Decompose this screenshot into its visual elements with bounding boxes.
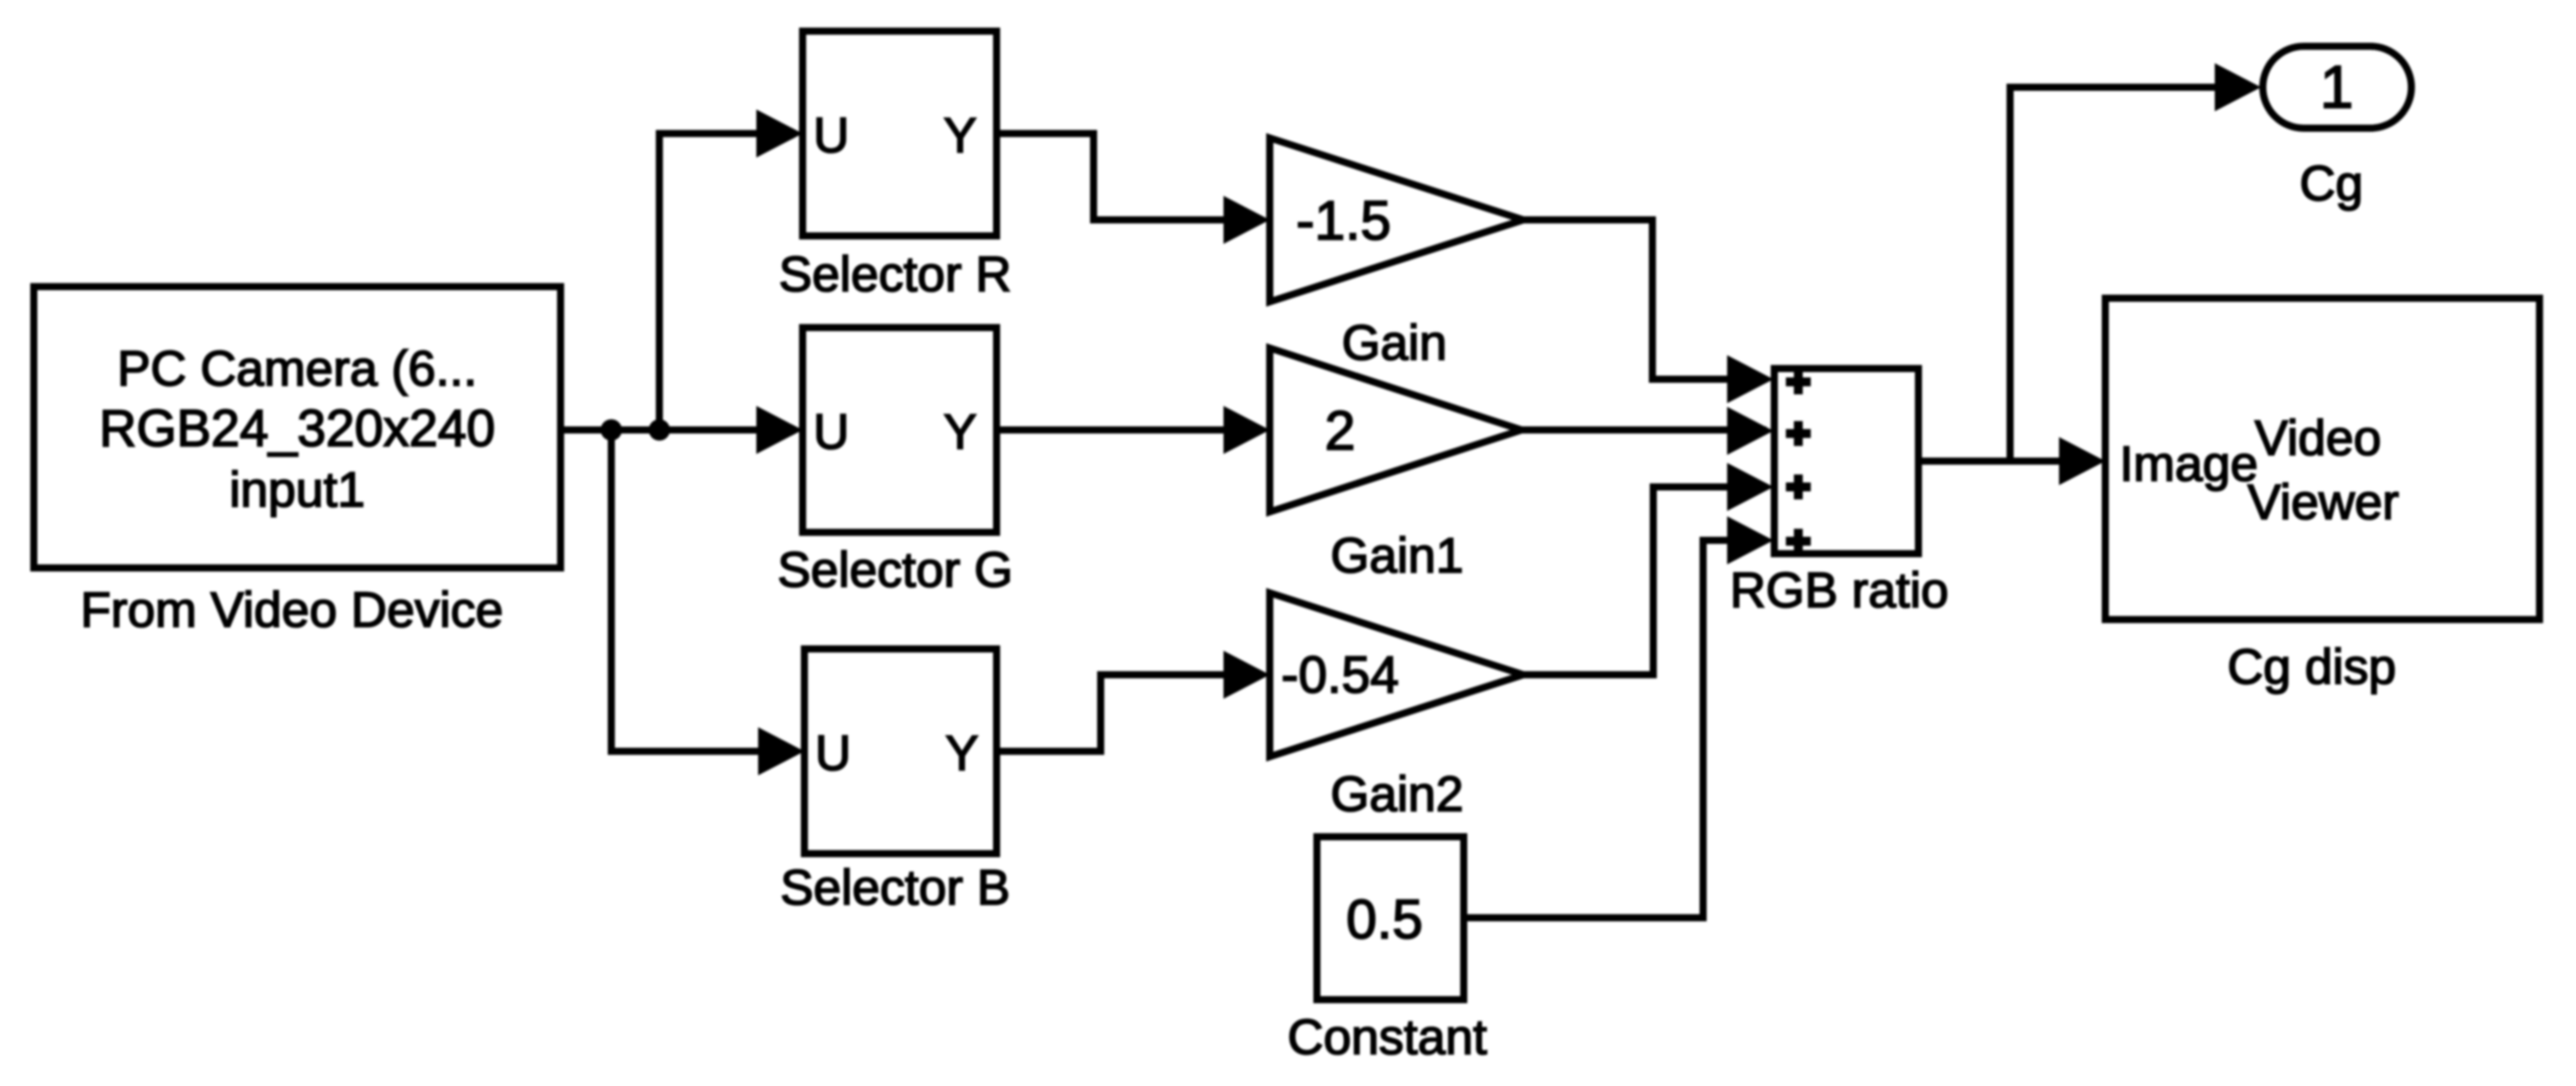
arrowhead into Gain2	[1223, 651, 1270, 699]
sum plus sign 3	[1786, 474, 1811, 499]
block From Video Device	[34, 287, 561, 568]
wire Selector G to Gain1	[997, 426, 1263, 434]
svg-text:Y: Y	[945, 725, 978, 781]
svg-text:Gain1: Gain1	[1330, 527, 1463, 583]
svg-text:0.5: 0.5	[1346, 889, 1423, 951]
wire Gain to sum input 1	[1523, 220, 1766, 379]
sum plus sign 1	[1786, 369, 1811, 394]
arrowhead into Gain	[1223, 196, 1270, 244]
svg-text:1: 1	[2320, 53, 2354, 121]
svg-text:U: U	[813, 403, 849, 459]
arrowhead into Selector B	[758, 727, 804, 775]
wire Gain2 to sum input 3	[1523, 487, 1766, 675]
wire Constant to sum input 4	[1464, 540, 1766, 918]
junction dot left	[601, 419, 622, 441]
svg-text:2: 2	[1325, 401, 1355, 462]
svg-text:Selector R: Selector R	[779, 246, 1011, 302]
svg-text:-1.5: -1.5	[1296, 190, 1392, 252]
arrowhead into Selector R	[756, 109, 803, 158]
svg-text:From Video Device: From Video Device	[80, 581, 503, 637]
svg-text:-0.54: -0.54	[1281, 646, 1399, 704]
svg-text:Y: Y	[943, 107, 976, 163]
svg-text:U: U	[813, 107, 849, 163]
svg-text:Gain2: Gain2	[1330, 766, 1463, 822]
gain block Gain1	[1270, 348, 1522, 512]
output port Cg oval	[2263, 46, 2411, 128]
svg-text:RGB ratio: RGB ratio	[1730, 562, 1949, 618]
wire branch to Selector B	[611, 430, 797, 751]
wire main output	[561, 426, 795, 434]
arrowhead into Selector G	[756, 406, 803, 454]
arrowhead into viewer	[2059, 437, 2105, 485]
arrowhead into Cg port	[2215, 63, 2261, 111]
wire branch to Cg port	[2010, 87, 2215, 461]
svg-text:Selector B: Selector B	[780, 859, 1010, 915]
junction dot right	[649, 419, 670, 441]
sum plus sign 2	[1786, 421, 1811, 446]
svg-text:Cg: Cg	[2299, 155, 2363, 211]
arrowhead into sum input 4	[1727, 516, 1773, 564]
svg-text:Selector G: Selector G	[778, 541, 1013, 597]
svg-text:PC Camera (6...: PC Camera (6...	[117, 340, 478, 396]
sum plus sign 4	[1786, 529, 1811, 554]
arrowhead into Gain1	[1223, 406, 1270, 454]
svg-text:RGB24_320x240: RGB24_320x240	[100, 400, 496, 458]
video viewer block Cg disp	[2105, 298, 2540, 620]
svg-text:U: U	[815, 725, 851, 781]
wire sum output to viewer	[1918, 458, 2098, 465]
svg-text:Constant: Constant	[1288, 1009, 1488, 1065]
selector B block	[804, 649, 997, 854]
sum block RGB ratio	[1774, 369, 1918, 554]
wire Selector R to Gain	[997, 134, 1263, 220]
svg-text:Cg disp: Cg disp	[2227, 638, 2396, 694]
svg-text:Gain: Gain	[1342, 314, 1447, 370]
selector G block	[803, 328, 997, 532]
gain block Gain	[1270, 138, 1523, 302]
svg-text:Image: Image	[2120, 435, 2258, 491]
wire Selector B to Gain2	[997, 675, 1263, 751]
arrowhead into sum input 2	[1727, 407, 1773, 455]
gain block Gain2	[1270, 593, 1523, 757]
wire Gain1 to sum input 2	[1522, 426, 1766, 434]
svg-text:Y: Y	[943, 403, 976, 459]
constant block	[1317, 837, 1464, 1000]
wire branch to Selector R	[659, 134, 795, 430]
selector R block	[803, 31, 997, 236]
svg-text:Video: Video	[2255, 409, 2381, 466]
svg-text:Viewer: Viewer	[2248, 474, 2399, 530]
svg-text:input1: input1	[230, 461, 366, 517]
arrowhead into sum input 1	[1727, 355, 1773, 403]
arrowhead into sum input 3	[1727, 463, 1773, 511]
